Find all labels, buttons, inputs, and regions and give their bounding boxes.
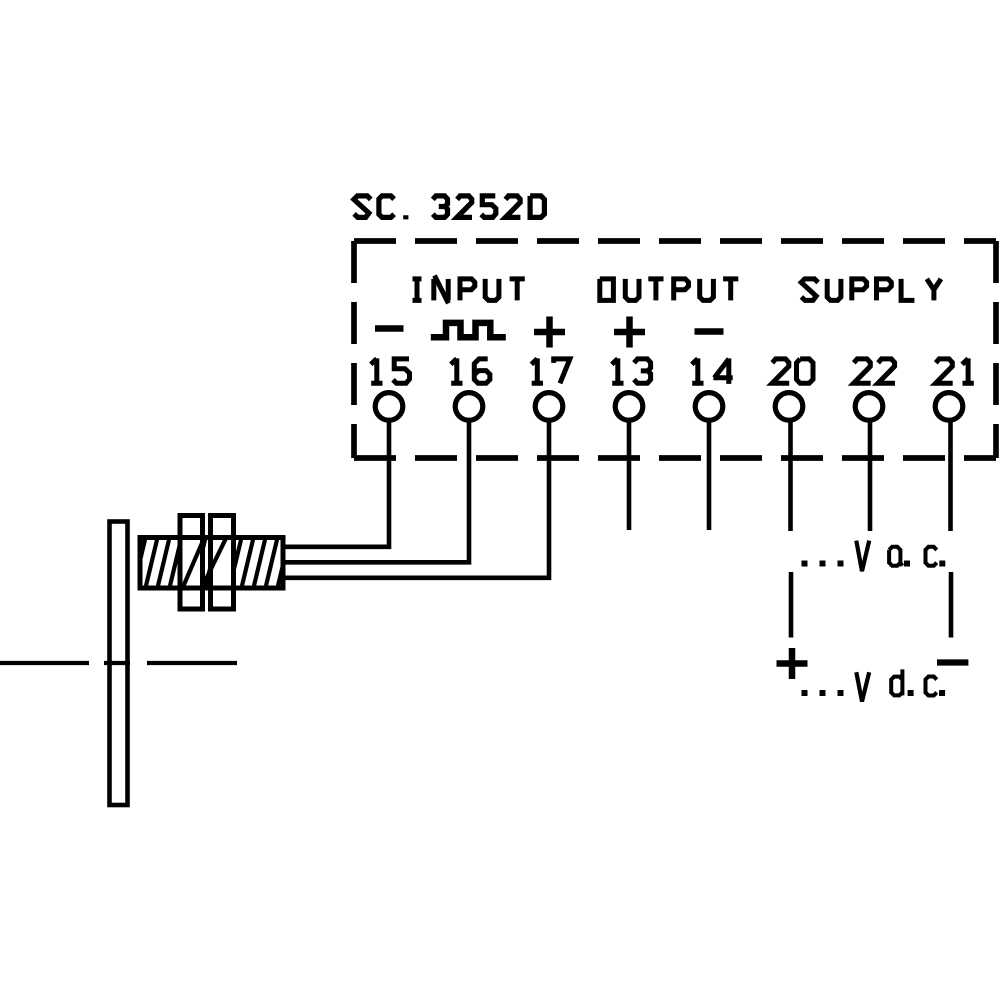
- terminal number 20: [772, 359, 813, 383]
- wire terminal 21 supply lower: [949, 572, 954, 638]
- plus symbol d.c. supply: [777, 648, 808, 679]
- label INPUT: [413, 276, 525, 304]
- pulse-train symbol terminal 16: [431, 323, 506, 337]
- plus symbol terminal 13: [614, 317, 645, 348]
- barrel edges across nuts: [177, 538, 236, 589]
- thread diagonal across nut gap: [202, 537, 226, 587]
- dot after c (d.c.): [939, 690, 945, 696]
- wire terminal 21 supply upper: [948, 423, 953, 532]
- letter a of a.c.: [889, 547, 902, 566]
- terminal circle 13: [615, 393, 643, 421]
- label SC. 3252D: [354, 196, 545, 220]
- dot after a: [904, 561, 910, 567]
- dot after c: [939, 561, 945, 567]
- wire terminal 13 output: [627, 423, 632, 531]
- terminal number 17: [531, 358, 570, 383]
- terminal number 22: [854, 359, 895, 383]
- terminal number 16: [451, 358, 490, 383]
- converter box dashed outline left edge: [351, 241, 357, 458]
- converter box SC.3252D dashed outline top edge: [354, 238, 996, 244]
- sensor barrel: [140, 538, 283, 589]
- terminal circle 20: [775, 393, 803, 421]
- dots before V d.c.: [802, 690, 808, 696]
- sensor nut 1: [180, 516, 203, 610]
- wire terminal 20 supply upper: [788, 423, 793, 532]
- terminal circle 14: [695, 393, 723, 421]
- dots before V a.c.: [802, 561, 808, 567]
- terminal circle 15: [375, 393, 403, 421]
- target plate: [110, 522, 128, 806]
- wire terminal 16 to sensor: [283, 423, 469, 563]
- minus symbol terminal 15: [375, 325, 404, 332]
- terminal number 14: [692, 358, 733, 384]
- sensor nut 2: [211, 516, 234, 610]
- minus symbol d.c. supply: [937, 659, 968, 665]
- wire terminal 17 to sensor: [283, 423, 549, 578]
- terminal number 13: [612, 358, 651, 383]
- wire terminal 20 supply lower: [789, 572, 794, 638]
- sensor thread hatching: [134, 540, 289, 586]
- terminal circle 17: [535, 393, 563, 421]
- plus symbol terminal 17: [534, 317, 565, 348]
- label OUTPUT: [600, 279, 739, 301]
- V of d.c. voltage: [856, 672, 869, 701]
- wire terminal 15 to sensor: [283, 423, 389, 547]
- wire terminal 14 output: [707, 423, 712, 531]
- letter c of a.c.: [926, 547, 937, 566]
- terminal circle 22: [855, 393, 883, 421]
- centre axis line: [0, 661, 237, 665]
- dot after d: [908, 690, 914, 696]
- label SUPPLY: [801, 279, 941, 301]
- terminal number 15: [371, 358, 410, 383]
- minus symbol terminal 14: [695, 328, 724, 335]
- terminal circle 16: [455, 393, 483, 421]
- thread diagonal across nut 1: [184, 537, 205, 585]
- letter c of d.c.: [926, 677, 937, 696]
- letter d of d.c.: [891, 669, 902, 695]
- terminal number 21: [936, 358, 974, 383]
- V of a.c. voltage: [856, 541, 869, 572]
- converter box dashed outline right edge: [993, 241, 999, 458]
- terminal circle 21: [935, 393, 963, 421]
- wire terminal 22 supply: [868, 423, 873, 532]
- converter box dashed outline bottom edge: [354, 455, 996, 461]
